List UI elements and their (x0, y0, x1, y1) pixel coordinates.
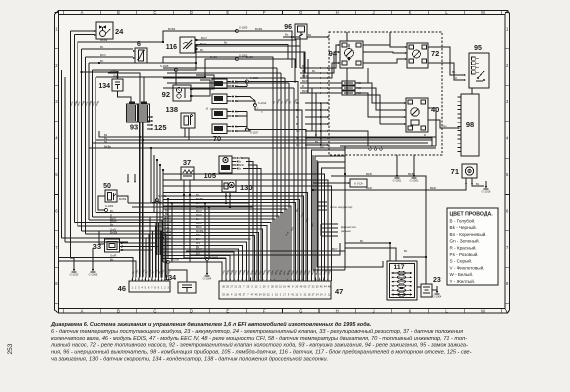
svg-text:72: 72 (431, 49, 439, 58)
left bundle rows to grounds (71, 255, 75, 264)
wire ignition switch 95 down to cluster (471, 88, 473, 94)
wire 92 risers (163, 70, 176, 85)
svg-text:93: 93 (130, 123, 138, 132)
svg-text:Bn: Bn (312, 69, 316, 73)
svg-text:Сигн. корректор: Сигн. корректор (330, 205, 353, 209)
svg-text:S-1012: S-1012 (258, 101, 267, 105)
svg-text:Bk/R: Bk/R (302, 79, 308, 83)
power relay 40 (406, 98, 428, 132)
wire left vertical x77.7 (77, 42, 79, 226)
svg-text:134: 134 (98, 83, 110, 90)
svg-text:E: E (226, 308, 229, 313)
svg-text:33: 33 (93, 242, 101, 251)
svg-text:Bn: Bn (238, 160, 242, 164)
svg-text:ча зажигания, 130 - датчик ско: ча зажигания, 130 - датчик скорости, 134… (51, 356, 328, 363)
wire 37 lead B (190, 195, 222, 262)
svg-text:Bn: Bn (196, 193, 200, 197)
wire 46 extra feed verticals (139, 122, 141, 278)
svg-text:Bk/R: Bk/R (302, 74, 308, 78)
junction S-1008 (175, 69, 178, 72)
solenoid valve 24 (96, 22, 113, 39)
capacitor 134 top (112, 79, 123, 91)
wire 96 entry from left (283, 36, 293, 38)
junction S-1003 (236, 58, 239, 61)
svg-text:B/V: B/V (196, 233, 201, 237)
battery 23 (421, 284, 432, 297)
junction S-1006 (167, 261, 170, 264)
wire interior rows dashed box lower (329, 131, 368, 146)
frame grid number ticks (55, 12, 59, 14)
wires relay 94 verticals down (367, 68, 369, 83)
svg-text:G-1061: G-1061 (393, 179, 402, 183)
wire 130 lead2 (229, 196, 231, 207)
svg-text:Bn: Bn (360, 239, 364, 243)
wire fan right feed verticals (344, 146, 346, 174)
svg-text:Bn/V: Bn/V (200, 42, 206, 46)
sensor 116 (180, 37, 195, 53)
unused pins on dashed box bottom (369, 148, 371, 150)
svg-text:S-1027: S-1027 (250, 131, 259, 135)
wires dashed box to relay 94 (329, 45, 340, 68)
svg-text:6 - датчик температуры поступа: 6 - датчик температуры поступающего возд… (51, 328, 463, 335)
wire 105 Bn2 (243, 169, 261, 196)
svg-text:Bn/Bk: Bn/Bk (196, 197, 204, 201)
wire to valve 24 pin1 (71, 30, 95, 32)
wire 46 feeds horizontal (59, 258, 134, 278)
svg-text:G-1062: G-1062 (410, 179, 419, 183)
wire to valve 92 lower (193, 80, 210, 96)
ignition relay 94 (340, 41, 363, 68)
svg-text:A: A (81, 10, 84, 15)
wire BkB row to 71 area (331, 176, 426, 257)
svg-text:H: H (336, 308, 339, 313)
ground arrow mid (92, 248, 94, 264)
svg-text:S-1001: S-1001 (158, 194, 167, 198)
svg-text:253: 253 (7, 343, 14, 354)
svg-text:B: B (296, 122, 298, 126)
svg-text:Bn: Bn (110, 258, 114, 262)
ignition switch 95 (469, 53, 489, 88)
svg-text:Bn: Bn (100, 59, 104, 63)
wire Bn/V to sensor 6 (86, 56, 134, 58)
svg-text:C: C (153, 10, 156, 15)
svg-text:R - Красный.: R - Красный. (450, 244, 477, 250)
svg-text:Bk/R: Bk/R (430, 186, 436, 190)
wire rows y243-253 right (345, 243, 390, 261)
svg-text:138: 138 (165, 105, 178, 114)
fuel pump relay 72 (407, 43, 428, 68)
svg-text:Gn/Y: Gn/Y (113, 74, 119, 78)
wire left vertical x95.8 (95, 77, 97, 213)
wire left vertical x88.9 (88, 63, 90, 220)
svg-text:Gn - Зеленый.: Gn - Зеленый. (450, 238, 480, 244)
wire vertical feeds 117 (344, 174, 346, 270)
junction S-1003 mid bottom (206, 258, 209, 261)
wire left vertical extra (61, 70, 63, 238)
svg-text:37: 37 (183, 158, 191, 167)
svg-text:40: 40 (431, 105, 439, 114)
svg-text:G-1016: G-1016 (482, 190, 491, 194)
air temp sensor 6 (135, 48, 147, 63)
svg-text:105: 105 (203, 171, 216, 180)
svg-text:G-1013: G-1013 (70, 273, 79, 277)
svg-text:Bn/Bk: Bn/Bk (196, 229, 204, 233)
svg-text:Gn/R: Gn/R (110, 69, 116, 73)
svg-text:96: 96 (284, 24, 292, 31)
wire fan right rows lower from left (163, 174, 325, 281)
wire upper mid verticals (272, 63, 274, 281)
wire to valve 24 pin2 (74, 34, 94, 36)
wire 37 lead A (184, 195, 226, 258)
wire battery 23 to ground (432, 289, 437, 291)
border frame inner (59, 15, 506, 309)
inertia switch 96 (295, 24, 307, 39)
svg-text:J: J (373, 308, 375, 313)
svg-text:Bn/Bk: Bn/Bk (100, 38, 108, 42)
wire 117 to battery 23 (417, 286, 421, 288)
wire left vertical x92.5 (92, 70, 94, 217)
module 50 (105, 190, 117, 202)
svg-text:S-1004: S-1004 (105, 204, 114, 208)
svg-text:Bn/V: Bn/V (196, 209, 202, 213)
wire feed verticals left of dashed box (299, 46, 301, 68)
wire mid verticals group A (248, 195, 250, 281)
svg-text:Bn: Bn (110, 209, 114, 213)
EDIS module 46 (129, 281, 170, 292)
svg-text:Bk - Черный.: Bk - Черный. (450, 224, 477, 230)
wire BkR long row to fuel pump 71 (313, 178, 466, 190)
svg-text:ливный насос, 72 - реле топлив: ливный насос, 72 - реле топливного насос… (50, 342, 468, 349)
svg-text:G-1004: G-1004 (203, 277, 212, 281)
svg-text:K: K (409, 308, 412, 313)
wire Bk long row y143 (93, 142, 429, 144)
svg-text:125: 125 (154, 123, 167, 132)
wire left vertical x74.4 (73, 35, 75, 223)
wire battery 23 top (425, 279, 427, 284)
svg-text:92: 92 (162, 90, 170, 99)
wire 138 lead1 (184, 128, 186, 137)
svg-text:V - Фиолетовый.: V - Фиолетовый. (450, 264, 485, 270)
svg-text:D: D (190, 10, 193, 15)
svg-text:46: 46 (118, 284, 126, 293)
svg-text:D: D (190, 308, 193, 313)
svg-text:B: B (117, 308, 120, 313)
svg-text:C: C (153, 308, 156, 313)
wire rows into dashed box left edge (300, 67, 329, 69)
wire corrector branch (317, 201, 327, 203)
svg-text:B - Голубой.: B - Голубой. (450, 218, 476, 224)
wire BkW long row bottom (186, 250, 345, 252)
svg-text:Bn/Bk: Bn/Bk (119, 197, 127, 201)
svg-text:B: B (302, 84, 304, 88)
svg-text:Диаграмма 6. Система зажигания: Диаграмма 6. Система зажигания и управле… (50, 321, 372, 328)
wire 105 S/W (241, 158, 249, 195)
svg-text:Bk/Y: Bk/Y (332, 247, 338, 251)
wires relay 72 outputs right (428, 47, 464, 75)
svg-text:G: G (299, 10, 302, 15)
svg-text:Bn/Bk: Bn/Bk (168, 27, 176, 31)
svg-text:M: M (481, 10, 485, 15)
EEC IV module connector 47 (219, 281, 331, 299)
wire dashed box bottom exits (396, 155, 398, 170)
svg-text:Bn: Bn (404, 249, 408, 253)
wire fan left rows into module 47 (163, 262, 222, 281)
svg-text:G-1004: G-1004 (433, 295, 442, 299)
svg-text:S-1005: S-1005 (239, 26, 248, 30)
wire 130 lead1 (225, 196, 227, 203)
frame corner bevels (58, 11, 60, 15)
svg-text:B/Y: B/Y (196, 252, 201, 256)
wire 138 lead2 (188, 128, 190, 140)
wires relay 94 to relay 72 (363, 45, 407, 47)
svg-text:95: 95 (474, 45, 482, 52)
svg-text:70: 70 (213, 134, 221, 143)
wire 105 Bk/R (248, 165, 257, 195)
svg-text:47: 47 (335, 287, 343, 296)
wire row y52 to dashed box (93, 52, 330, 73)
svg-text:Gn: Gn (443, 124, 447, 128)
svg-text:Bn/V: Bn/V (196, 221, 202, 225)
speed sensor 130 (222, 180, 236, 192)
svg-text:Bn: Bn (224, 41, 228, 45)
fuel injectors 70 (212, 79, 227, 89)
wire to valve 92 upper (193, 75, 214, 89)
wire 71 to ground G-1016 (472, 184, 484, 186)
idle air control valve 92 (173, 85, 191, 101)
instrument cluster 98 (461, 94, 479, 156)
svg-text:Bk/V: Bk/V (196, 225, 202, 229)
svg-text:ния, 96 - инерционный выключат: ния, 96 - инерционный выключатель, 98 - … (51, 349, 472, 356)
wire BkBn long row y148 (89, 147, 436, 149)
wire 50 right lead (117, 196, 128, 203)
svg-text:S-1008: S-1008 (160, 64, 169, 68)
svg-text:Bn: Bn (285, 33, 289, 37)
svg-text:Bn: Bn (238, 167, 242, 171)
wire BY row bottom (190, 243, 340, 255)
junction dots various (139, 136, 141, 138)
svg-text:Bn/V: Bn/V (196, 213, 202, 217)
relay box dashed outline (329, 32, 442, 155)
fuel pump 71 (462, 164, 477, 178)
crankshaft position sensor 37 (181, 167, 194, 180)
svg-text:Y - Желтый.: Y - Желтый. (450, 278, 476, 284)
wire coil 93 down leads (139, 122, 141, 277)
wire fuse outputs (355, 83, 380, 103)
wire to capacitor 134 (82, 72, 118, 78)
ground G-1004 mid bottom (206, 261, 208, 269)
wire S-1001 verticals (150, 148, 152, 203)
fuses F32 F30 F29 inside relay box (329, 82, 342, 84)
wire colour legend box (447, 208, 498, 285)
wire fan left verticals x168 x172 (167, 199, 169, 258)
wire 50 to S-1004 (98, 196, 105, 210)
svg-text:98: 98 (466, 120, 474, 129)
svg-text:F: F (263, 308, 266, 313)
svg-text:E: E (226, 10, 229, 15)
svg-text:W - Белый.: W - Белый. (450, 271, 474, 277)
wire rows into dashed box lower (305, 102, 329, 104)
wire verticals x205 x209 (204, 203, 206, 258)
wire Bk long row y137 (99, 131, 436, 137)
svg-text:H: H (336, 10, 339, 15)
svg-text:116: 116 (166, 44, 177, 51)
wire row y59 via S-1003 (96, 59, 295, 83)
svg-text:B: B (117, 10, 120, 15)
svg-text:Bn: Bn (296, 101, 300, 105)
svg-text:R: R (296, 115, 298, 119)
wire Bn to sensor 6 (82, 48, 133, 50)
junction S-1005 (236, 30, 239, 33)
junction S-1026 (246, 80, 249, 83)
svg-text:M: M (481, 308, 485, 313)
wires relay 40 outputs (428, 108, 436, 146)
wire verticals from dashed top edge (346, 32, 348, 41)
wire Bn to inertia switch 96 (89, 37, 300, 63)
upper mid vertical feeds (99, 57, 273, 63)
wire stubs above 50 (127, 174, 129, 181)
lambda sensor 105 (219, 156, 232, 173)
svg-text:Bk/R: Bk/R (302, 89, 308, 93)
junction S-1004 (105, 209, 108, 212)
svg-text:Bn: Bn (200, 48, 204, 52)
svg-text:Bk/Bn: Bk/Bn (104, 145, 112, 149)
svg-text:Gn/R: Gn/R (110, 254, 116, 258)
svg-text:Bn: Bn (476, 182, 480, 186)
wire 105 Bn (246, 162, 253, 196)
svg-text:Bn: Bn (100, 45, 104, 49)
wires to relay 40 (380, 102, 406, 104)
junction S-1012 (254, 104, 257, 107)
sensor 116 wires right (197, 40, 297, 68)
border frame outer (55, 11, 510, 314)
wire left vertical x70.5 (70, 31, 72, 255)
svg-text:B/V: B/V (165, 226, 170, 230)
wire 134 to coil 93 (118, 91, 132, 103)
wire 33 left feed (99, 231, 105, 244)
wire fan right rows into module 47 (312, 150, 346, 281)
svg-text:50: 50 (103, 183, 111, 190)
svg-text:Bn/W: Bn/W (165, 219, 172, 223)
wire Gn/Y to coil 93 (112, 77, 144, 103)
svg-text:J: J (373, 10, 375, 15)
svg-text:разъем: разъем (341, 229, 351, 233)
wire diagnostic connector branch (321, 223, 338, 225)
svg-text:B/V: B/V (196, 241, 201, 245)
wire fan rows into EDIS 46 (96, 217, 150, 278)
svg-text:коленчатого вала, 46 - модуль: коленчатого вала, 46 - модуль EDIS, 47 -… (51, 335, 467, 342)
capacitor 134 bottom (178, 282, 196, 293)
wire Bn/Bk top (78, 31, 292, 68)
wire x313 down to bottom rows (313, 265, 345, 270)
svg-text:К УСА: К УСА (354, 182, 363, 186)
wire left vertical x81.6 (81, 49, 83, 231)
svg-text:Bn/Bk: Bn/Bk (255, 27, 263, 31)
wire Ps long row y140 (96, 139, 432, 141)
wire left vertical x85.5 (85, 57, 87, 234)
svg-text:Bk/R: Bk/R (238, 163, 244, 167)
fuse box 117 (387, 261, 417, 300)
svg-text:Bk/B: Bk/B (366, 172, 372, 176)
svg-text:71: 71 (451, 167, 459, 176)
svg-text:Bn/V: Bn/V (100, 53, 106, 57)
svg-text:R: R (424, 133, 426, 137)
svg-text:Bk/B: Bk/B (408, 172, 414, 176)
svg-text:B/V: B/V (196, 237, 201, 241)
svg-text:Bn: Bn (196, 217, 200, 221)
junction S-1027 (246, 128, 249, 131)
svg-text:Ps - Розовый.: Ps - Розовый. (450, 251, 479, 257)
svg-text:A: A (81, 308, 84, 313)
svg-text:R: R (455, 76, 457, 80)
svg-text:Gn: Gn (296, 129, 300, 133)
wire injector outputs merge (235, 81, 247, 83)
svg-text:G-1005: G-1005 (89, 273, 98, 277)
svg-text:130: 130 (240, 183, 253, 192)
svg-text:S-1003: S-1003 (210, 255, 219, 259)
throttle position sensor 138 (181, 113, 195, 128)
svg-text:24: 24 (115, 27, 124, 36)
svg-text:Bn/V: Bn/V (201, 36, 207, 40)
svg-text:F: F (263, 10, 266, 15)
wire fan mid rows into module 47 (163, 209, 287, 281)
svg-text:Gn: Gn (296, 143, 300, 147)
svg-text:23: 23 (433, 277, 441, 284)
wire vertical x313 region (312, 155, 314, 265)
ignition coil 93 (127, 104, 138, 122)
svg-text:K: K (409, 10, 412, 15)
svg-text:Bk/Y: Bk/Y (196, 247, 202, 251)
frame grid letter ticks (63, 11, 65, 15)
svg-text:ЦВЕТ ПРОВОДА.: ЦВЕТ ПРОВОДА. (450, 212, 494, 218)
wire K-USA branch (313, 182, 350, 184)
svg-text:G: G (299, 308, 302, 313)
ballast resistor 33 (105, 239, 120, 252)
wire Gn/R to coil 93 (108, 73, 140, 103)
wire 33 outputs to 46 fan (124, 242, 156, 244)
svg-text:R/V: R/V (165, 223, 170, 227)
svg-text:Bn - Коричневый.: Bn - Коричневый. (450, 231, 487, 237)
svg-text:S - Серый.: S - Серый. (450, 258, 473, 264)
wire rows 33 area to fan (96, 212, 163, 214)
junction S-1001 (156, 199, 159, 202)
svg-text:117: 117 (394, 264, 405, 271)
spark plugs 125 (147, 116, 152, 118)
